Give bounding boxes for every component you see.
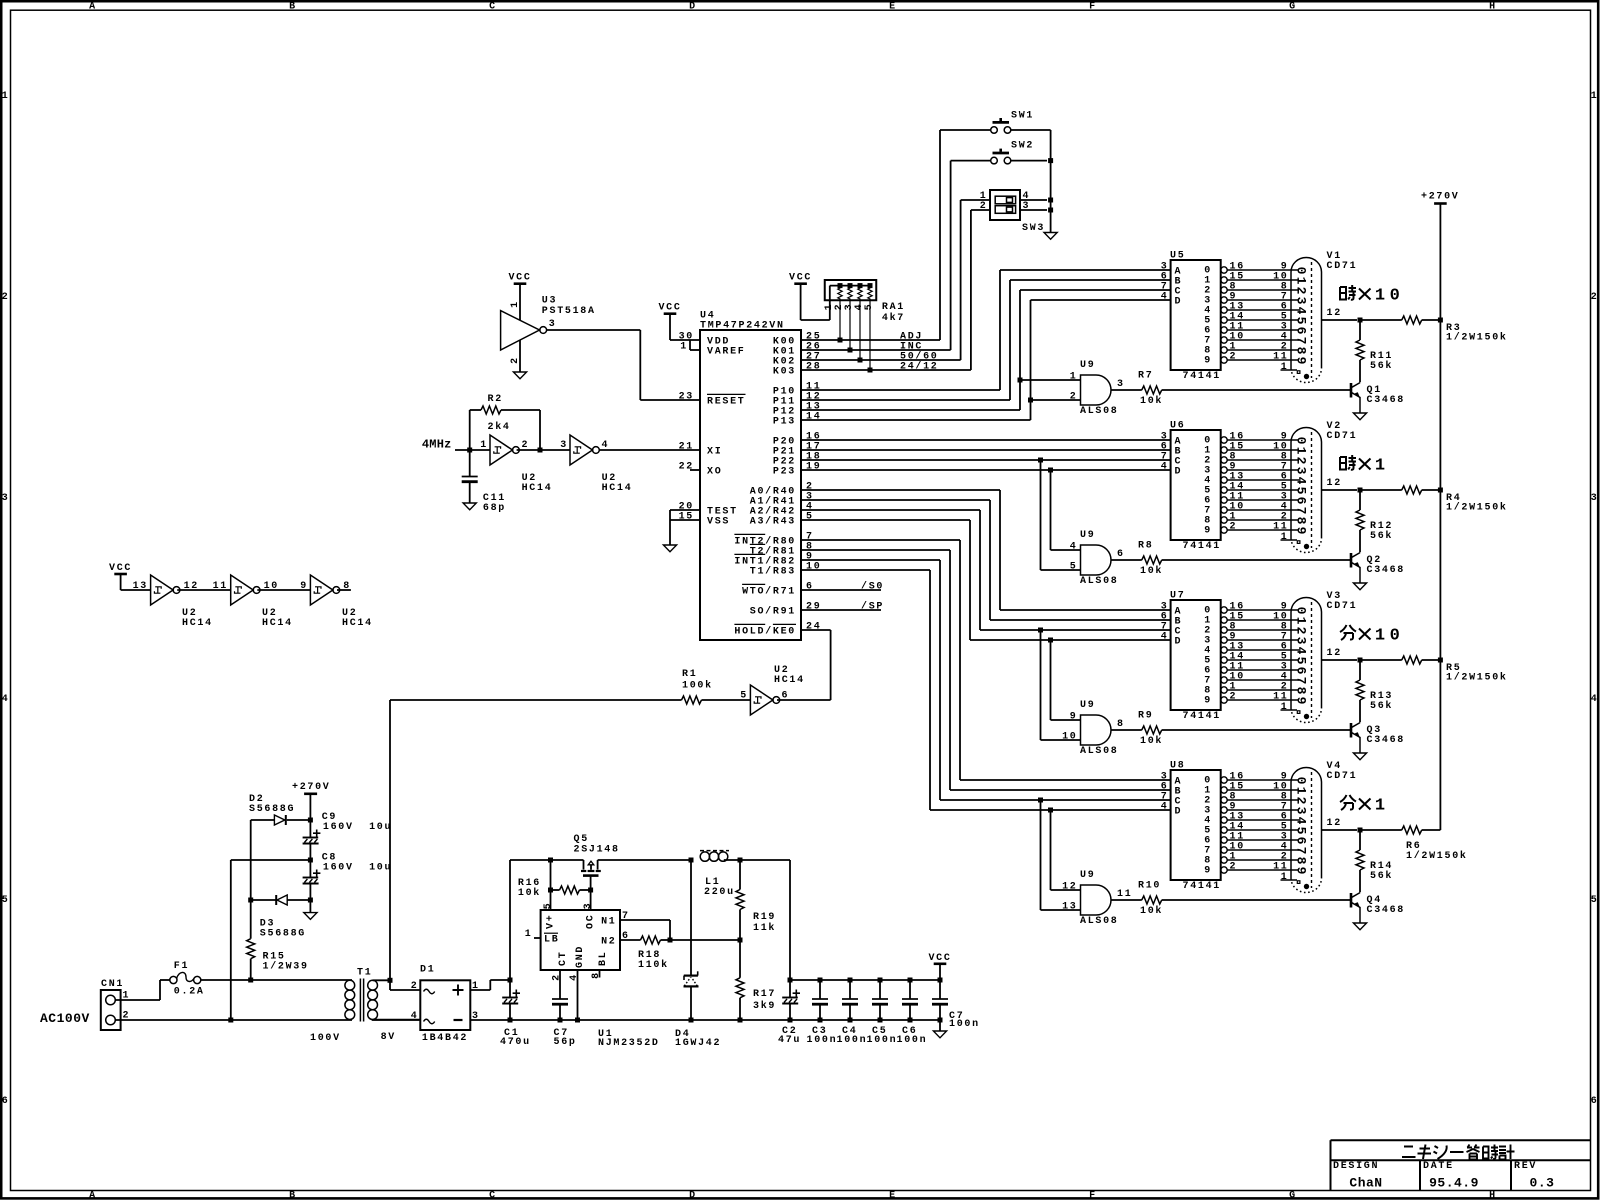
svg-text:REV: REV	[1514, 1161, 1537, 1172]
node C1 top junction	[508, 978, 513, 983]
svg-text:1: 1	[1375, 457, 1385, 476]
svg-text:56k: 56k	[1370, 360, 1393, 372]
svg-text:1: 1	[2, 91, 10, 102]
node gate4 lower junction	[1038, 798, 1043, 803]
svg-text:HC14: HC14	[522, 483, 553, 494]
nixie tube V4 CD71 envelope	[1291, 768, 1322, 879]
svg-text:3: 3	[1591, 493, 1599, 504]
svg-text:R8: R8	[1138, 541, 1153, 552]
svg-text:1: 1	[1281, 702, 1289, 713]
node anode junction V2	[1358, 488, 1363, 493]
wire K net INC	[801, 349, 951, 351]
svg-text:6: 6	[1294, 837, 1309, 845]
svg-text:5: 5	[740, 691, 748, 702]
wire TEST-VSS to ground	[669, 510, 671, 545]
wire 8V DC rail up	[509, 860, 511, 980]
node gate1 pin1 junction	[1018, 378, 1023, 383]
svg-text:VCC: VCC	[928, 953, 951, 964]
svg-text:7: 7	[1294, 677, 1309, 685]
wire INT2/R80 to U8 input A	[801, 539, 960, 541]
wire P20 to U6 input A	[801, 439, 1171, 441]
RA1 element pin 5	[868, 286, 872, 370]
RA1 element pin 4	[858, 286, 862, 360]
transistor Q4 C3468	[1350, 893, 1353, 908]
svg-text:DATE: DATE	[1423, 1161, 1454, 1172]
svg-text:1/2W150k: 1/2W150k	[1446, 671, 1508, 683]
resistor R8 10k	[1111, 559, 1142, 561]
node output junction	[738, 858, 743, 863]
svg-text:0: 0	[1294, 777, 1309, 785]
svg-text:R9: R9	[1138, 711, 1153, 722]
inverter U2 hold (pins 5-6)	[750, 685, 773, 715]
svg-text:P23: P23	[773, 467, 796, 478]
svg-text:3: 3	[1294, 807, 1309, 815]
svg-text:E: E	[889, 1190, 897, 1200]
svg-text:3: 3	[549, 319, 557, 330]
svg-text:1: 1	[1375, 797, 1385, 816]
U3 pin 2 wire to ground	[519, 340, 521, 372]
node gate2 upper junction	[1048, 468, 1053, 473]
wire SW3 pin 3 to ground rail	[1020, 209, 1047, 211]
node D2 cathode junction	[308, 818, 313, 823]
ground at U4 VSS	[663, 545, 676, 552]
AND gate U9 ALS08 for V1	[1081, 375, 1112, 405]
wire VCC to RA1 pin 1	[800, 284, 802, 320]
node D3 left junction	[248, 898, 253, 903]
svg-text:U9: U9	[1080, 530, 1095, 541]
wire SW1 left to K00 ADJ	[940, 129, 991, 131]
resistor R2 2k4 feedback	[469, 410, 471, 450]
switch SW2	[991, 157, 998, 164]
wire +270V to D2 node	[309, 794, 311, 820]
svg-text:5: 5	[1591, 895, 1599, 906]
wire A0/R40 to U7 input A	[801, 489, 1000, 491]
svg-text:8: 8	[1294, 857, 1309, 865]
wire SW3 pin 2 to K03 24/12	[971, 209, 990, 211]
node RA1 pin 5 junction on K03	[868, 368, 873, 373]
svg-text:160V 10u: 160V 10u	[323, 863, 392, 874]
resistor R16 10k	[551, 889, 560, 891]
wire secondary top to bridge	[373, 979, 390, 981]
svg-text:R2: R2	[488, 394, 503, 405]
resistor R19 11k	[739, 860, 741, 890]
svg-text:4: 4	[1161, 292, 1169, 303]
svg-text:5: 5	[1294, 317, 1309, 325]
svg-text:RESET: RESET	[707, 397, 746, 408]
wire CN1 pin1 to fuse	[115, 999, 160, 1001]
svg-text:PST518A: PST518A	[542, 306, 596, 317]
diode D4 1GWJ42 flyback	[690, 860, 692, 975]
svg-text:4k7: 4k7	[882, 312, 905, 324]
svg-text:CT: CT	[558, 951, 569, 966]
node C6 top junction	[908, 978, 913, 983]
wire output rail to VCC	[740, 859, 790, 861]
svg-text:CD71: CD71	[1327, 431, 1358, 442]
svg-text:1B4B42: 1B4B42	[422, 1033, 468, 1044]
RA1 element pin 3	[848, 286, 852, 350]
AND gate U9 ALS08 for V3	[1081, 715, 1112, 745]
svg-text:R10: R10	[1138, 881, 1161, 892]
svg-text:U9: U9	[1080, 870, 1095, 881]
wire inverter 10 to 9	[257, 589, 310, 591]
svg-text:1: 1	[1375, 627, 1385, 646]
svg-text:2: 2	[510, 356, 521, 364]
U1 pin 1 LB stub	[534, 937, 541, 939]
svg-text:56k: 56k	[1370, 870, 1393, 882]
svg-text:VAREF: VAREF	[707, 347, 746, 358]
svg-text:24/12: 24/12	[900, 361, 939, 373]
svg-text:1/2W150k: 1/2W150k	[1446, 331, 1508, 343]
svg-text:2: 2	[1591, 292, 1599, 303]
wire Q5 drain to switch node	[598, 859, 691, 861]
wire L1 to output node	[724, 859, 740, 861]
svg-text:9: 9	[300, 581, 308, 592]
digit group label for V2	[1340, 455, 1356, 470]
resistor R17 3k9	[739, 940, 741, 978]
node R16 gate junction	[588, 888, 593, 893]
svg-text:/S0: /S0	[861, 581, 884, 593]
svg-text:VCC: VCC	[789, 273, 812, 284]
svg-text:6: 6	[1591, 1096, 1599, 1107]
svg-text:B: B	[289, 2, 297, 13]
svg-text:C: C	[489, 1190, 497, 1200]
wire P21 to U6 input B	[801, 449, 1171, 451]
wire U3 output to U4 RESET	[547, 329, 641, 331]
svg-text:11: 11	[1117, 889, 1132, 900]
U3 pin 1 wire from VCC	[519, 284, 521, 320]
svg-text:4: 4	[1161, 802, 1169, 813]
svg-text:CD71: CD71	[1327, 771, 1358, 782]
capacitor C4 100n	[849, 980, 851, 999]
svg-text:CD71: CD71	[1327, 261, 1358, 272]
ground at C8 D3	[309, 900, 311, 913]
node R16 left junction	[548, 888, 553, 893]
VCC symbol at RA1	[794, 282, 807, 285]
resistor R12 56k	[1359, 490, 1361, 510]
svg-text:74141: 74141	[1183, 541, 1222, 552]
node anode junction V3	[1358, 658, 1363, 663]
svg-text:LB: LB	[544, 935, 559, 946]
svg-text:3: 3	[1294, 637, 1309, 645]
svg-text:5: 5	[2, 895, 10, 906]
svg-text:C: C	[489, 2, 497, 13]
svg-text:100n: 100n	[949, 1019, 980, 1030]
svg-text:T1/R83: T1/R83	[750, 566, 796, 578]
nixie tube V2 CD71 envelope	[1291, 428, 1322, 539]
svg-text:U9: U9	[1080, 360, 1095, 371]
transistor Q1 C3468	[1350, 383, 1353, 398]
wire bridge + output to C1	[470, 989, 490, 991]
svg-text:1: 1	[1070, 372, 1078, 383]
inverter U2 oscillator first (pins 1-2)	[490, 435, 513, 465]
digit group label for V1	[1340, 285, 1356, 300]
svg-text:8: 8	[591, 971, 602, 979]
svg-text:2: 2	[1230, 352, 1238, 363]
wire SW1 right to ground rail	[1011, 129, 1051, 131]
tube V1 pin 1 stub	[1281, 369, 1298, 371]
svg-text:74141: 74141	[1183, 371, 1222, 382]
wire U9 gate2 upper input tap	[1050, 470, 1052, 550]
svg-text:74141: 74141	[1183, 711, 1222, 722]
node gate2 lower junction	[1038, 458, 1043, 463]
svg-text:D1: D1	[420, 965, 435, 976]
svg-text:3: 3	[1294, 467, 1309, 475]
svg-text:6: 6	[1117, 549, 1125, 560]
wire SW2 left to K01 INC	[951, 160, 991, 162]
inverter U2 spare (pins 9-8)	[310, 575, 333, 605]
wire U9 gate3 lower input tap	[1040, 630, 1042, 740]
svg-text:2: 2	[552, 973, 563, 981]
AND gate U9 ALS08 for V2	[1081, 545, 1112, 575]
svg-text:1: 1	[1294, 447, 1309, 455]
node oscillator mid junction	[538, 448, 543, 453]
svg-text:HC14: HC14	[602, 483, 633, 494]
svg-text:10k: 10k	[518, 887, 541, 899]
transistor Q5 2SJ148 P-MOSFET	[583, 860, 585, 870]
svg-text:6: 6	[2, 1096, 10, 1107]
nixie tube V3 CD71 envelope	[1291, 598, 1322, 709]
node AC return junction	[228, 1018, 233, 1023]
resistor R5 1/2W150k	[1360, 659, 1402, 661]
svg-text:100V: 100V	[310, 1033, 341, 1044]
svg-text:HC14: HC14	[342, 618, 373, 629]
wire C8 node to AC return	[231, 859, 311, 861]
tube V4 pin 1 stub	[1281, 879, 1298, 881]
switch SW1	[991, 127, 998, 134]
VCC symbol at spare gate chain	[114, 573, 127, 576]
wire SW2 right to ground rail	[1011, 160, 1047, 162]
svg-text:160V 10u: 160V 10u	[323, 822, 392, 833]
capacitor C5 100n	[879, 980, 881, 999]
ground at supply rail end	[939, 1020, 941, 1031]
svg-text:11: 11	[1273, 862, 1288, 873]
svg-text:N1: N1	[601, 917, 616, 928]
svg-text:10: 10	[1062, 732, 1077, 743]
wire U9 gate4 upper input tap	[1050, 810, 1052, 890]
svg-text:R17: R17	[753, 989, 776, 1000]
U1 pin 4 GND wire	[577, 970, 579, 1020]
svg-text:BL: BL	[598, 951, 609, 966]
svg-text:U6: U6	[1170, 421, 1185, 432]
svg-text:F1: F1	[174, 961, 189, 972]
wire U9 gate1 pin2 tap	[1031, 399, 1081, 401]
node gate1 pin2 junction	[1028, 398, 1033, 403]
svg-text:R19: R19	[753, 912, 776, 923]
svg-text:56k: 56k	[1370, 530, 1393, 542]
wire P22 to U6 input C	[801, 459, 1171, 461]
svg-text:4: 4	[1161, 462, 1169, 473]
capacitor C11 68p	[469, 450, 471, 477]
U1 pin 6 N2 and resistor R18 110k	[620, 939, 641, 941]
svg-text:1/2W150k: 1/2W150k	[1406, 850, 1468, 862]
svg-text:VSS: VSS	[707, 517, 730, 528]
svg-text:1GWJ42: 1GWJ42	[675, 1038, 721, 1049]
wire 4MHz node to inverter input	[455, 449, 490, 451]
node rail junction R5	[1438, 658, 1443, 663]
svg-text:4: 4	[1294, 477, 1309, 485]
wire K net 50/60	[801, 359, 961, 361]
wire P23 to U6 input D	[801, 469, 1171, 471]
transformer T1	[345, 980, 355, 990]
svg-text:R7: R7	[1138, 371, 1153, 382]
svg-text:SW3: SW3	[1022, 223, 1045, 234]
wire T2/R81 to U8 input B	[801, 549, 950, 551]
wire D2 anode riser	[250, 820, 252, 900]
RA1 common bus	[830, 285, 871, 287]
svg-text:8: 8	[1294, 517, 1309, 525]
svg-text:3: 3	[1117, 379, 1125, 390]
wire V+ to U1 pin5	[550, 860, 552, 910]
wire T1/R83 to U8 input D	[801, 569, 930, 571]
svg-text:C3468: C3468	[1367, 905, 1406, 916]
node C7 bottom junction	[558, 1018, 563, 1023]
wire AC return CN1 pin2 rail	[115, 1019, 352, 1021]
U1 pin 7 N1 wire	[620, 919, 670, 921]
title text Nixie tube clock (kanji strokes)	[1402, 1147, 1416, 1158]
svg-text:8: 8	[1294, 687, 1309, 695]
svg-text:4MHz: 4MHz	[422, 438, 452, 452]
svg-text:U7: U7	[1170, 591, 1185, 602]
svg-text:5: 5	[1294, 827, 1309, 835]
svg-text:9: 9	[1294, 867, 1309, 875]
svg-text:2: 2	[1294, 287, 1309, 295]
switch SW3 DIP	[990, 190, 1020, 220]
node feedback junction N1-N2	[668, 938, 673, 943]
svg-text:11: 11	[1273, 522, 1288, 533]
svg-text:2: 2	[1294, 627, 1309, 635]
driver IC U6 74141 box	[1171, 430, 1221, 540]
svg-text:5: 5	[864, 303, 875, 311]
node C8 top junction	[308, 858, 313, 863]
resistor R4 1/2W150k	[1360, 489, 1402, 491]
svg-text:U3: U3	[542, 296, 557, 307]
wire feedback node to divider	[670, 939, 740, 941]
svg-text:1: 1	[1281, 532, 1289, 543]
inverter U2 oscillator second (pins 3-4)	[570, 435, 593, 465]
svg-text:1: 1	[1294, 617, 1309, 625]
node divider junction	[738, 938, 743, 943]
svg-text:9: 9	[1294, 357, 1309, 365]
svg-text:1: 1	[525, 929, 533, 940]
svg-text:3: 3	[2, 493, 10, 504]
svg-text:D: D	[1175, 807, 1183, 818]
wire SW3 pin 1 to K02 50/60	[961, 199, 990, 201]
svg-text:1: 1	[1294, 277, 1309, 285]
svg-text:12: 12	[1062, 882, 1077, 893]
svg-text:8: 8	[1117, 719, 1125, 730]
svg-text:74141: 74141	[1183, 881, 1222, 892]
svg-text:D: D	[1175, 297, 1183, 308]
resistor R3 1/2W150k	[1360, 319, 1402, 321]
wire A2/R42 to U7 input C	[801, 509, 980, 511]
node V+ branch junction	[548, 858, 553, 863]
node SW3 pin4 junction	[1048, 198, 1053, 203]
wire INT1/R82 to U8 input C	[801, 559, 940, 561]
svg-text:0: 0	[1390, 627, 1400, 646]
U1 pin 8 BL stub	[599, 970, 601, 978]
svg-text:11k: 11k	[753, 922, 776, 934]
node VCC junction	[938, 978, 943, 983]
svg-text:10k: 10k	[1140, 735, 1163, 747]
svg-text:5: 5	[1294, 487, 1309, 495]
VCC symbol at U3	[514, 282, 527, 285]
wire P12 to U5 input C	[801, 409, 1020, 411]
svg-text:4: 4	[569, 973, 580, 981]
capacitor C9 160V 10u	[309, 820, 311, 838]
svg-text:N2: N2	[601, 937, 616, 948]
svg-text:CN1: CN1	[101, 979, 124, 990]
svg-text:56k: 56k	[1370, 700, 1393, 712]
svg-text:0: 0	[1294, 607, 1309, 615]
svg-text:G: G	[1289, 2, 1297, 13]
svg-text:2: 2	[1230, 522, 1238, 533]
svg-text:G: G	[1289, 1190, 1297, 1200]
wire A1/R41 to U7 input B	[801, 499, 990, 501]
svg-text:V+: V+	[546, 914, 557, 929]
svg-text:470u: 470u	[500, 1037, 531, 1048]
svg-text:+270V: +270V	[292, 782, 331, 793]
node C2 top junction	[788, 978, 793, 983]
ground at Q2 emitter	[1353, 583, 1366, 590]
svg-text:6: 6	[1294, 667, 1309, 675]
svg-text:HOLD/KE0: HOLD/KE0	[734, 626, 796, 638]
svg-text:/SP: /SP	[861, 601, 884, 613]
svg-text:11: 11	[213, 581, 228, 592]
svg-text:A: A	[89, 1190, 97, 1200]
node 4MHz junction	[467, 448, 472, 453]
node C4 top junction	[848, 978, 853, 983]
svg-text:9: 9	[1204, 526, 1212, 537]
svg-text:D: D	[689, 2, 697, 13]
inverter U2 spare (pins 11-10)	[231, 575, 254, 605]
svg-text:7: 7	[1294, 847, 1309, 855]
ground at U3	[513, 372, 526, 379]
svg-text:1: 1	[510, 300, 521, 308]
svg-text:2: 2	[1294, 797, 1309, 805]
svg-text:3: 3	[1294, 297, 1309, 305]
svg-text:7: 7	[1294, 337, 1309, 345]
VCC symbol at U4 VDD	[664, 312, 677, 315]
node C4 bottom junction	[848, 1018, 853, 1023]
wire P13 to U5 input D	[801, 419, 1031, 421]
wire +270V anode rail	[1439, 204, 1441, 830]
svg-text:3k9: 3k9	[753, 1000, 776, 1012]
driver IC U7 74141 box	[1171, 600, 1221, 710]
svg-text:1: 1	[1294, 787, 1309, 795]
svg-text:4: 4	[1161, 632, 1169, 643]
capacitor C1 470u	[509, 980, 511, 998]
capacitor C3 100n	[819, 980, 821, 999]
svg-text:VCC: VCC	[508, 273, 531, 284]
svg-text:4: 4	[602, 440, 610, 451]
node C2 bottom junction	[788, 1018, 793, 1023]
resistor R11 56k	[1359, 320, 1361, 340]
wire P10 to U5 input A	[801, 389, 1000, 391]
digit group label for V3	[1340, 625, 1356, 640]
reset IC U3 PST518A	[501, 311, 540, 350]
ground at switch rail	[1044, 233, 1057, 240]
wire K net 24/12	[801, 369, 971, 371]
svg-text:100n: 100n	[807, 1035, 838, 1046]
svg-text:OC: OC	[586, 914, 597, 929]
svg-text:4: 4	[1294, 817, 1309, 825]
resistor R14 56k	[1359, 830, 1361, 850]
svg-text:HC14: HC14	[774, 675, 805, 686]
wire VCC to inverter pin 13	[120, 574, 122, 590]
resistor R7 10k	[1111, 389, 1142, 391]
digit group label for V4	[1340, 795, 1356, 810]
svg-text:HC14: HC14	[182, 618, 213, 629]
